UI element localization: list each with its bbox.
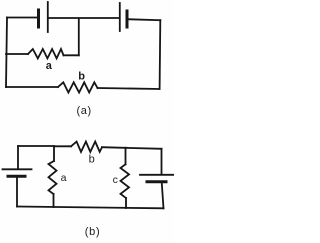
battery E3 negative plate (short thick): [8, 175, 25, 178]
wire: resistor c branch top (circuit b): [125, 148, 127, 165]
wire: circuit (b) top-left segment: [18, 145, 54, 147]
battery E1 negative plate (short thick): [37, 10, 40, 27]
wire: circuit (b) top-right segment: [102, 147, 162, 149]
resistor a (circuit a): [28, 49, 64, 58]
wire: resistor a branch top (circuit b): [53, 146, 55, 161]
svg-text:(b): (b): [85, 226, 101, 238]
wire: circuit (a) inner branch left: [6, 53, 28, 55]
battery E4 positive plate (long thin): [140, 174, 174, 176]
wire: circuit (a) left side: [6, 18, 7, 88]
battery E3 positive plate (long thin): [3, 168, 32, 170]
wire: circuit (a) inner vertical: [78, 19, 80, 56]
wire: circuit (b) top-middle segment: [54, 145, 71, 147]
wire: circuit (a) inner branch right: [64, 54, 79, 56]
svg-text:(a): (a): [77, 105, 92, 117]
resistor a (circuit b): [49, 161, 57, 194]
wire: circuit (b) right vertical lower: [162, 184, 164, 209]
wire: resistor c branch bottom (circuit b): [125, 198, 127, 208]
wire: resistor a branch bottom (circuit b): [53, 194, 55, 207]
wire: circuit (a) top-right segment: [127, 19, 160, 20]
wire: circuit (a) bottom-right segment: [98, 88, 160, 89]
resistor b (circuit b): [71, 142, 102, 152]
wire: circuit (a) top-left segment: [7, 17, 37, 19]
resistor c (circuit b): [121, 164, 130, 198]
svg-text:a: a: [46, 60, 53, 72]
battery E2 positive plate (long thin): [119, 3, 121, 31]
battery E4 negative plate (short thick): [147, 180, 166, 183]
wire: circuit (a) bottom-left segment: [6, 86, 58, 88]
svg-text:b: b: [78, 71, 85, 83]
wire: circuit (b) left vertical upper: [17, 146, 19, 169]
wire: circuit (b) left vertical lower: [16, 178, 18, 207]
resistor b (circuit a): [58, 82, 98, 92]
wire: circuit (a) top-middle segment: [48, 17, 119, 19]
battery E2 negative plate (short thick): [126, 11, 129, 27]
wire: circuit (a) right side: [159, 20, 162, 89]
wire: circuit (b) right vertical upper: [161, 149, 163, 175]
svg-text:c: c: [113, 174, 118, 186]
wire: circuit (b) bottom segment: [17, 207, 164, 209]
svg-text:b: b: [89, 153, 95, 165]
svg-text:a: a: [61, 172, 67, 184]
battery E1 positive plate (long thin): [47, 2, 49, 32]
